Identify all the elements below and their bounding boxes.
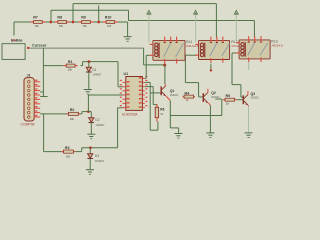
- wire long horizontal y20.5: [129, 20, 255, 22]
- wire Q1 emitter down: [166, 96, 179, 133]
- wire RL1 com stub: [164, 64, 166, 65]
- wire curseur down: [143, 48, 145, 65]
- wire RL3 coil chain: [232, 53, 243, 97]
- svg-text:R8: R8: [57, 16, 62, 20]
- wire U1 out2 to R6 top: [145, 87, 157, 108]
- wire R3 up to U1 pin7: [118, 108, 123, 148]
- wire curseur right to RL1: [144, 64, 165, 66]
- svg-text:10k: 10k: [59, 24, 64, 28]
- ground D1: [84, 90, 92, 95]
- wire J1 pin3 join: [40, 91, 43, 93]
- transistor Q1: [161, 86, 178, 97]
- wire top horizontal y3.6: [73, 3, 216, 5]
- wire down to R3 feed: [43, 114, 45, 152]
- ground Q2: [206, 133, 214, 138]
- svg-text:RL3: RL3: [271, 40, 277, 44]
- svg-text:2N2222: 2N2222: [211, 97, 220, 99]
- resistor R8: [55, 16, 70, 29]
- svg-text:10k: 10k: [35, 24, 40, 28]
- wire down to RL2 top pin: [215, 4, 217, 38]
- svg-text:ULN2003A: ULN2003A: [122, 112, 138, 116]
- relay RL2: [195, 37, 242, 63]
- power terminal RL2: [193, 10, 198, 42]
- wire R1 jog up: [80, 62, 118, 66]
- relay RL1: [150, 37, 203, 64]
- svg-text:R2: R2: [70, 108, 75, 112]
- wire-end dot RL2: [210, 69, 212, 71]
- svg-text:JW2SN-D: JW2SN-D: [271, 44, 283, 48]
- svg-text:Q1: Q1: [170, 89, 175, 93]
- label Entree: [11, 39, 22, 43]
- wire U1 com to RL1 coil: [145, 55, 150, 78]
- resistor R6: [155, 104, 164, 122]
- op-amp U1 ULN2003A: [120, 72, 148, 117]
- svg-text:Q3: Q3: [251, 92, 256, 96]
- svg-text:10k: 10k: [70, 117, 75, 121]
- svg-text:Curseur: Curseur: [32, 43, 47, 47]
- wire to Q1 collector: [164, 65, 166, 84]
- resistor R3: [62, 146, 76, 159]
- diode D2: [88, 112, 105, 134]
- wire R3 jog up: [75, 148, 117, 152]
- svg-text:R6: R6: [160, 108, 164, 112]
- diode D3: [87, 148, 104, 170]
- svg-text:R7: R7: [33, 16, 38, 20]
- svg-text:D2: D2: [95, 118, 99, 122]
- resistor R7: [30, 16, 45, 29]
- svg-text:R3: R3: [65, 146, 70, 150]
- wire Q1 base: [150, 92, 160, 94]
- wire R2 up to U1 pin: [88, 95, 122, 112]
- resistor R4: [183, 92, 195, 103]
- svg-text:2N2222: 2N2222: [251, 98, 260, 100]
- junction dot R3 D3: [89, 146, 92, 149]
- resistor R1: [64, 60, 78, 71]
- ground D3: [86, 170, 94, 175]
- resistor R9: [79, 16, 94, 29]
- svg-text:R4: R4: [185, 92, 190, 96]
- curseur origin dot: [27, 47, 29, 49]
- svg-text:U1: U1: [124, 72, 129, 76]
- ground Q3: [245, 133, 253, 138]
- wire tap R7-R8 up: [50, 10, 52, 22]
- svg-text:RL1: RL1: [186, 40, 192, 44]
- svg-text:Q2: Q2: [211, 91, 216, 95]
- svg-text:R1: R1: [68, 60, 73, 64]
- svg-text:10k: 10k: [68, 67, 73, 71]
- wire tap R8-R9 up: [72, 4, 74, 22]
- resistor R2: [66, 108, 80, 121]
- junction dot R1 D1: [88, 60, 91, 63]
- svg-text:Entrée: Entrée: [11, 39, 22, 43]
- svg-text:2N2222: 2N2222: [170, 95, 179, 97]
- wire RL2 coil chain: [185, 55, 202, 97]
- wire horizontal y10: [51, 9, 129, 11]
- junction dot node B: [72, 21, 75, 24]
- wire jog down x128.5: [128, 10, 130, 20]
- wire U1 out to Q1 base net: [145, 82, 158, 130]
- svg-text:10k: 10k: [107, 24, 112, 28]
- wire curseur gray line: [30, 47, 144, 49]
- svg-text:1N4007: 1N4007: [92, 73, 102, 77]
- ground D2: [87, 134, 95, 139]
- label Curseur: [32, 43, 47, 47]
- wire long emitter bus: [170, 115, 222, 117]
- wire Q1 collector stub: [164, 84, 167, 86]
- junction dot node C: [97, 21, 100, 24]
- wire J1 bottom pin to R2: [40, 113, 68, 115]
- svg-text:J1: J1: [27, 74, 31, 78]
- wire R3 feed: [44, 151, 64, 153]
- connector J1: [21, 74, 41, 127]
- transistor Q2: [203, 89, 220, 103]
- wire down to U1 pin2: [118, 62, 123, 87]
- wire J1 pin4 join: [40, 96, 47, 98]
- wire R2 jog up: [80, 112, 88, 114]
- wire Q2 emitter to bus: [215, 99, 222, 116]
- wire row top resistor ladder: [14, 21, 128, 23]
- svg-text:D1: D1: [92, 68, 96, 72]
- wire vertical to Entree label: [13, 22, 15, 36]
- svg-text:R10: R10: [105, 16, 112, 20]
- svg-text:1N4007: 1N4007: [95, 159, 105, 163]
- resistor R5: [223, 94, 237, 106]
- svg-text:10k: 10k: [83, 24, 88, 28]
- junction dot curseur RL1: [163, 64, 166, 67]
- power terminal RL3: [234, 10, 239, 41]
- svg-text:D3: D3: [95, 154, 99, 158]
- svg-text:R5: R5: [226, 94, 231, 98]
- wire R5 to Q3 base: [237, 99, 243, 101]
- junction dot node A: [50, 21, 53, 24]
- wire down to RL3 top pin: [253, 21, 255, 38]
- relay RL3: [236, 36, 283, 62]
- wire Q2 emitter down: [208, 103, 210, 133]
- power terminal RL1: [147, 10, 152, 42]
- ground Q1: [174, 134, 182, 139]
- wire tap R9-R10 up: [98, 6, 100, 22]
- junction dot R2 D2: [87, 110, 90, 113]
- wire Q3 emitter down: [247, 105, 249, 133]
- wire curseur drop to J1: [42, 48, 44, 96]
- svg-text:R9: R9: [81, 16, 86, 20]
- ground ladder end: [124, 22, 132, 41]
- resistor R10: [103, 16, 118, 29]
- wire RL3 bottom-left pin stub: [248, 62, 250, 70]
- svg-text:COMPIM: COMPIM: [21, 122, 35, 126]
- transistor Q3: [243, 91, 259, 105]
- graphic box: [2, 44, 25, 60]
- diode D1: [86, 62, 102, 89]
- wire tap to R1 feed: [43, 65, 63, 67]
- svg-text:1N4007: 1N4007: [95, 123, 105, 127]
- svg-text:10k: 10k: [66, 155, 71, 159]
- wire RL2 bottom-left pin stub: [210, 64, 212, 70]
